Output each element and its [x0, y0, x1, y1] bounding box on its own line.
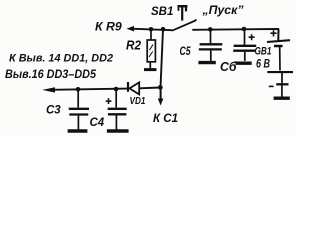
- node junction R2 top: [149, 27, 154, 32]
- svg-text:К С1: К С1: [153, 113, 178, 125]
- svg-text:SB1: SB1: [151, 6, 173, 18]
- svg-text:С3: С3: [46, 105, 61, 117]
- svg-text:К R9: К R9: [95, 20, 122, 34]
- capacitor C6: [233, 29, 256, 61]
- ground below C4: [107, 129, 129, 133]
- node junction C3: [76, 87, 81, 92]
- battery GB1 cell2 long plate: [267, 71, 293, 73]
- battery GB1 cell2 short plate: [276, 83, 288, 85]
- ground below C3: [68, 129, 88, 133]
- battery GB1 cell1 long plate: [267, 40, 290, 42]
- diode VD1 cathode bar: [127, 82, 129, 92]
- battery internal lead 2: [281, 73, 283, 84]
- svg-text:6 В: 6 В: [256, 59, 270, 71]
- capacitor C3: [69, 90, 89, 130]
- battery GB1 cell1 short plate: [274, 45, 283, 48]
- capacitor C4: [108, 89, 127, 129]
- capacitor C6 polarity +: [249, 34, 255, 40]
- wire top rail right of switch: [192, 28, 279, 31]
- diode VD1 triangle: [130, 82, 140, 94]
- ground below R2: [144, 68, 157, 71]
- svg-text:„Пуск”: „Пуск”: [201, 3, 243, 17]
- battery internal lead: [279, 47, 281, 71]
- svg-text:R2: R2: [126, 38, 142, 53]
- switch SB1 plunger: [178, 6, 188, 21]
- battery bottom lead: [281, 85, 283, 97]
- svg-text:Сб: Сб: [220, 59, 237, 74]
- svg-text:C5: C5: [180, 46, 191, 58]
- battery minus sign: [269, 85, 274, 87]
- node junction vertical wire top: [161, 27, 166, 32]
- wire bottom rail with left arrowhead: [42, 87, 55, 92]
- wire to C1 with down arrowhead: [160, 88, 162, 100]
- node junction bottom: [158, 85, 163, 90]
- ground below battery: [274, 96, 290, 99]
- battery plus sign: [270, 30, 276, 36]
- node junction C5: [208, 27, 213, 32]
- node junction C4: [114, 87, 119, 92]
- wire diode to junction: [139, 87, 161, 90]
- svg-text:Выв.16 DD3–DD5: Выв.16 DD3–DD5: [5, 67, 96, 81]
- capacitor C5: [199, 30, 223, 62]
- resistor R2: [147, 30, 155, 69]
- capacitor C4 polarity +: [106, 98, 112, 104]
- svg-text:К Выв. 14 DD1, DD2: К Выв. 14 DD1, DD2: [9, 53, 113, 65]
- switch SB1 lever: [172, 20, 197, 31]
- ground below C6: [236, 62, 252, 65]
- wire vertical from top rail down to bottom junction: [161, 29, 164, 87]
- wire corner into battery: [277, 29, 279, 41]
- svg-text:С4: С4: [90, 117, 105, 129]
- wire to R9 with left arrowhead: [127, 26, 135, 32]
- ground below C5: [198, 61, 215, 64]
- svg-text:GB1: GB1: [255, 46, 272, 58]
- node junction C6: [242, 27, 247, 32]
- svg-text:VD1: VD1: [130, 95, 146, 107]
